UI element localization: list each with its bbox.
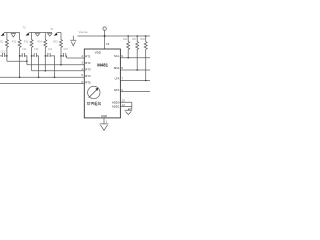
junction R8 / LTA [145,80,147,82]
value / net labels (gray) [0,27,146,124]
svg-text:R12: R12 [12,40,17,43]
wire HTA [120,91,150,93]
wire LTA [120,80,150,82]
capacitor C13 [32,53,39,77]
junction VDD stem / rail [104,35,106,37]
svg-text:14: 14 [122,103,126,107]
wire bus RT2 [27,64,84,66]
svg-text:RT1: RT1 [85,55,91,59]
junction ch2 wire / bus RT4 [19,77,21,79]
svg-text:VDD: VDD [95,50,102,54]
resistor R12 [18,33,21,78]
power terminal VDD [103,27,106,30]
svg-text:M481: M481 [97,63,108,68]
svg-text:R18: R18 [141,38,146,41]
svg-text:RT4: RT4 [85,74,91,78]
svg-text:HTA: HTA [114,88,120,92]
resistor R11 [5,33,8,62]
wire sensor segment W2 [27,33,52,35]
svg-text:SDA: SDA [114,66,120,70]
wire bus RT1 [67,57,85,59]
wire sensor segment W3 [55,33,61,35]
junction node ch2/C12 [19,55,21,57]
svg-text:RT3: RT3 [85,68,91,72]
node triangle N1 [11,34,16,38]
svg-text:ADD1: ADD1 [112,105,120,109]
svg-text:C11: C11 [1,50,6,53]
ground G2 (ADD pins) [125,110,133,114]
capacitor C11 [0,53,7,57]
wire SDA [120,69,150,71]
resistor R14 [44,33,47,71]
svg-text:C14: C14 [48,48,53,51]
junction node ch5/C15 [60,55,62,57]
wire bus RT3 [32,70,85,72]
junction link/bus RT2 riser [26,60,28,62]
chip text labels [85,50,120,118]
on-chip temperature sensor symbol (U1 internal) [88,86,100,98]
resistor R15 [60,33,63,65]
wire link RT1 cell to bus [7,60,27,62]
IC U1 M481 body [84,49,120,118]
junction ch4 wire / bus RT3 [45,70,47,72]
sensor lead arrow A3 (wire W3) [54,33,58,36]
junction ch5 wire / bus RT2 [60,64,62,66]
wire sensor segment W1 [2,33,20,35]
svg-text:GND: GND [101,114,107,118]
resistor R8 pull-up LTA [144,36,147,81]
wire GND pin stem [103,118,105,124]
ground G3 (U1 GND) [100,124,109,130]
junction R7 / VDD rail [136,35,138,37]
svg-text:SCL: SCL [114,54,120,58]
sensor lead arrow A1 (wire W1) [1,34,5,37]
svg-text:RT5: RT5 [85,81,91,85]
junction R6 / SCL [127,57,129,59]
junction R6 / VDD rail [127,35,129,37]
svg-text:R13: R13 [24,40,29,43]
wire ADD0/ADD1 to ground [120,102,131,110]
wire SCL [120,57,150,59]
junction R7 / SDA [136,69,138,71]
svg-text:C12: C12 [22,48,27,51]
svg-text:R16: R16 [123,38,128,41]
wire bus RT5 [0,83,84,85]
resistor R6 pull-up SCL [127,36,130,58]
label 片内温度 (drawn glyphs) [87,102,101,106]
svg-text:R15: R15 [53,40,58,43]
wire bus RT4 [0,76,84,78]
junction node ch3/C13 [31,55,33,57]
sensor arrow head [95,88,98,91]
junction C14 elbow / bus RT4 [54,77,56,79]
node triangle N4 [47,33,52,36]
svg-text:R17: R17 [132,38,137,41]
svg-text:R14: R14 [38,40,43,43]
svg-text:RT2: RT2 [85,61,91,65]
resistor R7 pull-up SDA [136,36,139,70]
svg-text:LTA: LTA [115,77,120,81]
junction R8 / VDD rail [145,35,147,37]
resistor R13 [30,33,33,71]
node triangle N3 [35,33,40,36]
junction node ch1/C11 [6,55,8,57]
sensor lead arrow A2 (wire W2) [25,33,29,36]
wire VDD rail (right) [78,35,151,37]
svg-text:Vsense: Vsense [78,30,88,34]
junction node ch4/C14 [45,55,47,57]
svg-text:C15: C15 [63,48,68,51]
wire VDD stem to U1 pin 18 [104,30,106,49]
capacitor C12 [20,53,27,65]
ground G1 (sensor common) [70,36,76,46]
capacitor C14 [45,53,54,77]
capacitor C15 [61,53,67,58]
svg-text:18: 18 [106,42,110,46]
svg-text:C13: C13 [34,48,39,51]
junction C13 elbow / bus RT4 [38,77,40,79]
